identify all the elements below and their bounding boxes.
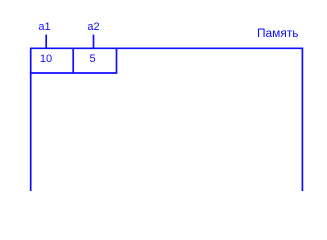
wire: divider between cell a1 and cell a2 [72, 48, 74, 74]
memory block outline (Память), open at bottom [31, 48, 303, 191]
svg-text:10: 10 [40, 53, 52, 65]
wire: pointer tick from label a1 down to cell a1 [45, 35, 47, 49]
svg-text:a2: a2 [87, 21, 99, 33]
svg-text:a1: a1 [38, 21, 50, 33]
wire: right edge of cell a2 [116, 48, 118, 74]
svg-text:5: 5 [89, 53, 95, 65]
svg-text:Память: Память [257, 28, 299, 40]
wire: bottom line of memory cell row [30, 72, 117, 74]
wire: pointer tick from label a2 down to cell a2 [93, 35, 95, 49]
